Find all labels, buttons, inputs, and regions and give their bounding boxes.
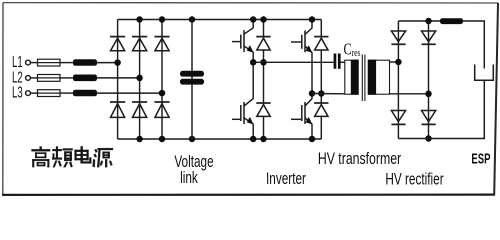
node L2 terminal circle bbox=[26, 76, 31, 81]
wire rectifier leg1 bbox=[117, 20, 119, 140]
wire Cres to primary top bbox=[341, 61, 346, 63]
fuse F1 bbox=[38, 59, 61, 66]
wire inductor to rectifier leg1 bbox=[97, 62, 118, 64]
wire rectifier leg2 bbox=[139, 20, 141, 140]
node dot leg3 bottom bbox=[159, 136, 166, 143]
ESP electrode (cup) bbox=[475, 65, 494, 81]
svg-text:link: link bbox=[180, 169, 198, 187]
diode D9 (top-right IGBT) bbox=[314, 20, 328, 94]
transistor Q1 IGBT top-left bbox=[232, 28, 254, 53]
node dot L3 tap bbox=[159, 90, 166, 97]
wire secondary bottom lead bbox=[390, 93, 429, 95]
capacitor voltage link plates bbox=[180, 71, 204, 85]
diode D6 (leg3 bottom) bbox=[154, 102, 169, 117]
border frame bbox=[2, 3, 498, 196]
fuse F3 bbox=[38, 90, 61, 97]
node dot leg3 top bbox=[159, 16, 166, 23]
node dot leg2 top bbox=[136, 16, 143, 23]
wire HV bottom bus bbox=[398, 81, 484, 139]
glyph 高 bbox=[32, 147, 51, 168]
transistor Q2 IGBT bottom-left bbox=[232, 99, 254, 125]
transistor Q3 IGBT top-right bbox=[291, 28, 312, 53]
wire inductor to rectifier leg3 bbox=[97, 92, 162, 94]
node L3 terminal circle bbox=[26, 91, 31, 96]
wire Q3 collector bbox=[311, 20, 313, 29]
transformer T1 core bbox=[362, 55, 365, 102]
diode D5 (leg2 bottom) bbox=[132, 102, 147, 117]
inductor row3 bbox=[73, 90, 97, 97]
diode D4 (leg1 bottom) bbox=[110, 102, 125, 117]
wire inductor to rectifier leg2 bbox=[97, 77, 140, 79]
diode D12 (HV top-right, down) bbox=[422, 31, 436, 44]
node dot D7 top bbox=[260, 16, 267, 23]
diode D10 (bottom-right IGBT) bbox=[314, 94, 328, 140]
wire Q2 collector bbox=[252, 62, 254, 99]
node dot left midpoint D bbox=[260, 59, 267, 66]
wire resistor to ESP corner bbox=[463, 21, 484, 69]
label CJK 高频电源 bbox=[32, 146, 114, 167]
wire Q4 emitter bbox=[311, 124, 313, 139]
wire voltage link vertical bbox=[191, 20, 193, 140]
svg-text:Inverter: Inverter bbox=[266, 170, 306, 188]
wire Q1 emitter bbox=[252, 52, 254, 62]
node dot left midpoint Q bbox=[250, 59, 257, 66]
wire left midpoint to Cres bbox=[253, 61, 333, 63]
wire fuse to inductor L2 row bbox=[60, 77, 73, 79]
diode D13 (HV bottom-left, down) bbox=[391, 111, 405, 125]
wire HV right leg bbox=[428, 21, 430, 139]
node dot secondary top bbox=[395, 59, 402, 66]
wire HV top bus bbox=[398, 20, 440, 22]
wire Q4 collector bbox=[311, 94, 313, 100]
svg-text:HV transformer: HV transformer bbox=[318, 150, 401, 168]
transformer T1 primary winding bbox=[345, 60, 359, 95]
node dot Q2 emitter bus bbox=[250, 136, 257, 143]
node dot right midpoint Q bbox=[309, 90, 316, 97]
node dot HV right top bbox=[425, 18, 432, 25]
node dot L2 tap bbox=[136, 75, 143, 82]
glyph 电 bbox=[75, 146, 92, 163]
diode D2 (leg2 top) bbox=[132, 37, 147, 51]
transformer T1 secondary winding bbox=[368, 60, 390, 95]
node dot right midpoint D bbox=[318, 90, 325, 97]
capacitor Cres plates bbox=[334, 54, 341, 69]
node L1 terminal circle bbox=[26, 60, 31, 65]
wire Q2 emitter bbox=[252, 124, 254, 139]
fuse F2 bbox=[38, 75, 61, 82]
transistor Q4 IGBT bottom-right bbox=[291, 99, 312, 125]
diode D7 (top-left IGBT) bbox=[256, 20, 270, 63]
node dot Q4 bottom bbox=[309, 136, 316, 143]
node dot Q3 top bbox=[309, 16, 316, 23]
node dot L1 tap bbox=[114, 59, 121, 66]
wire Q1 collector bbox=[252, 20, 254, 29]
resistor damping (top right) bbox=[440, 18, 463, 24]
diode D11 (HV top-left, down) bbox=[391, 31, 405, 44]
inductor row2 bbox=[73, 75, 97, 82]
node dot leg2 bottom bbox=[136, 136, 143, 143]
node dot Q1 top bbox=[250, 16, 257, 23]
svg-text:Cres: Cres bbox=[344, 41, 361, 59]
wire fuse to inductor L1 row bbox=[60, 62, 73, 64]
inductor row1 bbox=[73, 59, 97, 66]
node dot HV right bottom bbox=[425, 135, 432, 142]
glyph 频 bbox=[52, 147, 72, 168]
wire L3 terminal to fuse bbox=[30, 92, 37, 94]
glyph 源 bbox=[93, 148, 113, 167]
node dot cap top bbox=[189, 16, 196, 23]
diode D8 (bottom-left IGBT) bbox=[256, 62, 270, 139]
wire fuse to inductor L3 row bbox=[60, 92, 73, 94]
node dot secondary bottom bbox=[425, 91, 432, 98]
wire L1 terminal to fuse bbox=[30, 62, 37, 64]
diode D3 (leg3 top) bbox=[154, 37, 169, 51]
wire secondary top lead bbox=[390, 61, 399, 63]
label Voltage link bbox=[174, 153, 213, 187]
diode D1 (leg1 top) bbox=[110, 37, 125, 51]
diode D14 (HV bottom-right, down) bbox=[422, 111, 436, 125]
wire L2 terminal to fuse bbox=[30, 77, 37, 79]
wire top bus bbox=[118, 19, 322, 21]
wire right midpoint to primary bottom bbox=[312, 93, 346, 95]
svg-text:HV rectifier: HV rectifier bbox=[385, 171, 444, 189]
wire rectifier leg3 bbox=[161, 20, 163, 140]
wire HV left leg bbox=[397, 21, 399, 139]
svg-text:ESP: ESP bbox=[471, 151, 490, 168]
wire bottom bus bbox=[118, 138, 322, 140]
wire Q3 emitter to midpoint bbox=[311, 52, 313, 93]
node dot cap bottom bbox=[189, 136, 196, 143]
svg-text:L3: L3 bbox=[12, 83, 23, 101]
node dot D8 bottom bbox=[260, 136, 267, 143]
